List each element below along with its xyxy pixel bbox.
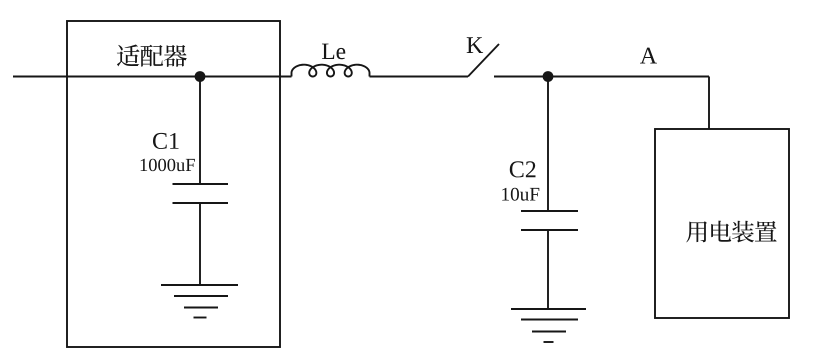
label Le <box>322 44 345 60</box>
capacitor C2 top plate <box>521 210 578 212</box>
wire: input to inductor <box>13 76 292 78</box>
label C1 <box>153 133 179 149</box>
node label A <box>640 48 657 64</box>
label 10uF <box>502 188 539 201</box>
wire: node to C1 top plate <box>199 77 201 185</box>
wire: inductor to switch <box>370 76 469 78</box>
ground (C2) <box>511 309 586 342</box>
capacitor C1 top plate <box>173 183 229 185</box>
label 适配器 <box>117 44 187 66</box>
junction node (C2 tap) <box>543 71 554 82</box>
junction node (C1 tap) <box>195 71 206 82</box>
label C2 <box>510 161 536 177</box>
load box (用电装置) <box>655 129 789 318</box>
wire: down into load <box>708 77 710 130</box>
inductor Le <box>292 65 370 77</box>
wire: C1 to ground <box>199 203 201 285</box>
ground (C1) <box>161 285 238 318</box>
switch K blade <box>468 44 499 77</box>
label 用电装置 <box>686 221 776 243</box>
label 1000uF <box>141 159 195 171</box>
wire: node to C2 top plate <box>547 77 549 212</box>
adapter box (适配器) <box>67 21 280 347</box>
capacitor C2 bottom plate <box>521 229 578 231</box>
capacitor C1 bottom plate <box>173 202 229 204</box>
label K <box>467 37 483 53</box>
wire: C2 to ground <box>547 230 549 309</box>
wire: switch to junction <box>494 76 709 78</box>
